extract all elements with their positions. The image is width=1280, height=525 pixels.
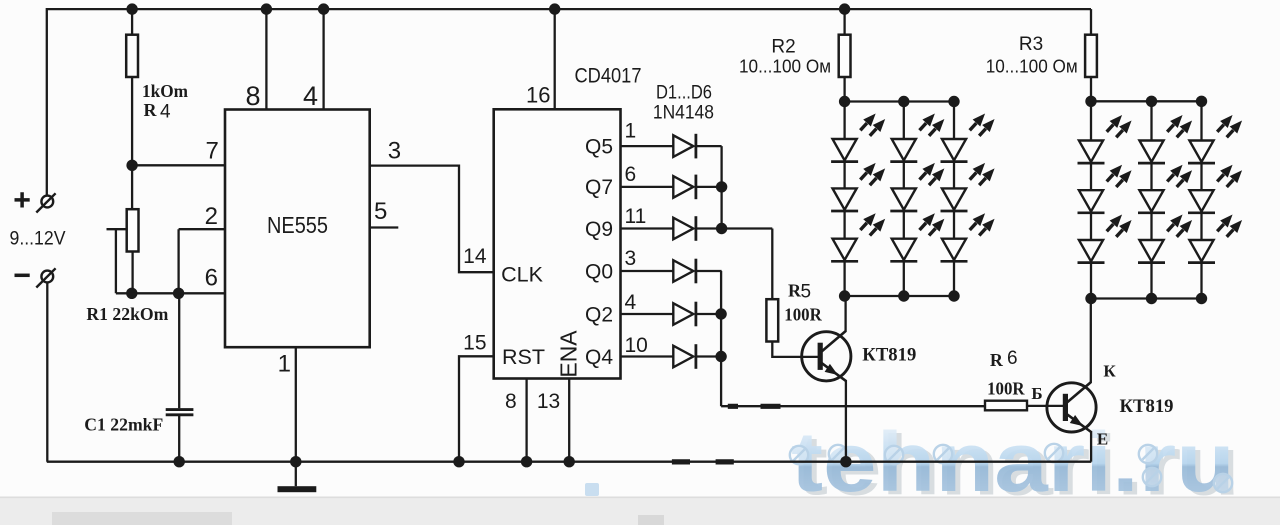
wire D2 to bus [696,186,722,188]
wire D4 to bus [696,270,722,272]
wire VT2 emitter to ground rail [1090,431,1092,462]
svg-text:10...100 Ом: 10...100 Ом [986,57,1078,77]
junction bus1 / D3 [716,223,727,234]
bottom page strip [0,497,1280,525]
svg-text:100R: 100R [987,379,1025,399]
junction LED col1 bottom (group1) [839,290,850,301]
junction bus2 / D6 [715,351,726,362]
LED HL15 (group2) [1138,216,1191,263]
wire LED col2 to bottom rail (group2) [1150,263,1152,299]
transistor VT1 KT819 [802,331,851,381]
wire down to R5 [771,229,773,300]
wire LED col2 seg3 (group1) [903,211,905,239]
diode D3 1N4148 [673,216,696,241]
svg-text:13: 13 [537,390,560,413]
wire LED group1 top rail [845,100,954,102]
wire top supply rail [47,8,1091,10]
wire LED col1 seg1 (group2) [1090,101,1092,140]
wire left drop to + terminal [46,8,48,196]
op-amp U1 NE555 box [225,110,370,348]
wire pin 1 to ground rail [295,347,297,462]
svg-text:Б: Б [1031,384,1042,403]
wire rail corner down to R3 [1090,9,1092,35]
wire bottom ground rail [47,461,1092,463]
svg-text:1kOm: 1kOm [142,81,188,101]
svg-text:10: 10 [625,334,648,357]
LED HL13 (group2) [1138,116,1191,163]
wire C1 bottom plate to ground rail [178,416,180,462]
wire LED col3 to bottom rail (group1) [953,261,955,296]
svg-text:ENA: ENA [556,330,582,378]
LED HL8 (group1) [941,164,994,211]
junction bus1 / D2 [716,181,727,192]
wire LED col3 seg3 (group1) [953,211,955,239]
junction pin8 on ground rail [521,456,532,467]
wire Q2 to D5 [621,313,674,315]
svg-text:Q7: Q7 [585,176,613,199]
wire D6 to bus [696,355,722,357]
wire R5 to VT1 base [772,342,818,357]
LED HL11 (group2) [1078,166,1131,213]
junction top rail / R4 [126,3,137,14]
svg-text:3: 3 [388,138,401,165]
svg-text:9...12V: 9...12V [10,228,66,249]
diode D1 1N4148 [673,134,696,159]
junction pin1 on ground rail [290,456,301,467]
wire node to C1 top plate [178,293,180,408]
wire LED col2 seg2 (group1) [903,162,905,189]
wire LED col1 seg1 (group1) [843,102,845,140]
diode D2 1N4148 [673,175,696,200]
svg-text:8: 8 [505,390,517,413]
wire LED col3 seg2 (group1) [953,162,955,189]
counter U2 CD4017 box [494,109,621,378]
junction LED col2 top (group2) [1146,96,1157,107]
diode D4 1N4148 [673,259,696,284]
wire LED col1 seg3 (group2) [1090,213,1092,240]
wire pin 6 of NE555 [116,292,225,294]
wire VT1 emitter to ground rail [845,380,847,462]
wire LED col1 seg2 (group1) [843,162,845,189]
svg-text:4: 4 [303,81,318,111]
junction C1 on ground rail [174,456,185,467]
wire diode bus 2 (Q0,Q2,Q4) [720,271,722,406]
svg-text:Q9: Q9 [585,218,613,241]
svg-text:Q4: Q4 [585,346,613,369]
label R 5 [788,281,811,303]
wire from - terminal down to bottom rail [46,282,48,461]
junction top rail / pin 4 [318,3,329,14]
resistor R5 100R [766,299,778,341]
svg-text:4: 4 [625,291,637,314]
svg-text:КТ819: КТ819 [862,345,916,366]
wire diode bus 1 (Q5,Q7,Q9) [720,146,722,228]
junction pin2-6 tie / C1 [173,288,184,299]
svg-text:КТ819: КТ819 [1120,396,1174,417]
wire pin 8 of CD4017 to ground [525,379,527,462]
wire bus1 to R5 [722,227,773,229]
svg-text:RST: RST [502,345,545,369]
svg-text:Q0: Q0 [585,260,613,283]
LED HL17 (group2) [1188,166,1241,213]
LED HL9 (group1) [941,214,994,261]
svg-text:10...100 Ом: 10...100 Ом [739,57,831,77]
resistor R1 (trimmer 22kOm) [127,209,139,251]
wire R1 wiper down-leg [115,229,117,293]
wire LED col3 seg3 (group2) [1200,213,1202,240]
wire pin 8 of NE555 to rail [265,9,267,109]
junction VT1 emitter on ground rail [840,456,851,467]
LED HL7 (group1) [941,115,994,162]
junction LED col2 bottom (group1) [898,290,909,301]
resistor R4 [126,35,138,77]
wire LED col1 to bottom rail (group1) [843,261,845,296]
svg-text:15: 15 [463,331,486,354]
junction R1 bottom on pin6 line [126,288,137,299]
resistor R2 [839,35,851,77]
wire pin 7 of NE555 [131,164,225,166]
capacitor C1 22mkF [166,410,194,415]
svg-text:1: 1 [278,350,291,377]
wire Q0 to D4 [621,270,674,272]
svg-text:1: 1 [625,120,637,143]
svg-text:6: 6 [625,163,637,186]
svg-text:D1...D6: D1...D6 [656,83,712,104]
LED HL16 (group2) [1188,116,1241,163]
LED HL2 (group1) [831,164,884,211]
wire pin 4 of NE555 to rail [322,9,324,109]
svg-text:2: 2 [205,203,218,230]
junction LED col1 bottom (group2) [1085,293,1096,304]
label R 6 [990,348,1018,370]
svg-text:CD4017: CD4017 [575,63,642,87]
wire VT2 collector to LED group 2 [1090,299,1092,384]
svg-text:CLK: CLK [501,263,543,287]
LED HL12 (group2) [1078,216,1131,263]
LED HL3 (group1) [831,214,884,261]
junction LED col3 top (group1) [948,96,959,107]
wire R4 to pin7 node [131,77,133,165]
wire dashes on ground rail [672,459,734,464]
wire node to R1 [131,165,133,209]
svg-text:C1 22mkF: C1 22mkF [84,414,163,434]
svg-text:3: 3 [625,247,637,270]
LED HL10 (group2) [1078,116,1131,163]
svg-text:1N4148: 1N4148 [653,103,714,124]
wire pin 2 of NE555 [179,228,225,230]
svg-text:7: 7 [205,138,218,165]
wire D5 to bus [696,313,722,315]
junction LED col1 top (group1) [839,96,850,107]
wire LED col1 to bottom rail (group2) [1090,263,1092,299]
junction LED col3 bottom (group1) [948,290,959,301]
svg-text:6: 6 [1007,348,1018,369]
wire Q4 to D6 [621,355,674,357]
svg-text:R: R [990,350,1004,370]
LED HL4 (group1) [890,115,943,162]
svg-text:16: 16 [526,83,550,108]
LED HL1 (group1) [831,115,884,162]
wire pin 3 to CLK pin 14 [370,166,494,273]
wire Q9 to D3 [621,227,674,229]
junction node pin7/R4/R1 [126,160,137,171]
svg-text:R2: R2 [771,36,795,57]
wire LED group2 top rail [1091,100,1202,102]
ground [278,462,317,493]
wire bus2 to R6 [721,405,985,407]
svg-text:6: 6 [205,264,218,291]
svg-text:5: 5 [374,198,387,225]
wire LED col3 seg1 (group1) [953,102,955,140]
LED HL6 (group1) [890,214,943,261]
LED HL18 (group2) [1188,216,1241,263]
wire LED col2 seg2 (group2) [1150,163,1152,190]
label R 4 [144,100,172,123]
junction pin13 on ground rail [564,456,575,467]
wire VT1 collector to LED group 1 [844,296,846,332]
svg-text:R1 22kOm: R1 22kOm [86,304,168,324]
resistor R3 [1085,35,1097,77]
wire tying pins 2 and 6 [177,229,179,293]
wire Q5 to D1 [621,145,674,147]
svg-text:R: R [144,100,158,120]
junction LED col2 top (group1) [898,96,909,107]
wire LED col3 seg2 (group2) [1200,163,1202,190]
terminal - [15,268,56,287]
wire LED group2 bottom rail [1091,297,1202,299]
junction top rail / R2 [839,3,850,14]
wire LED group1 bottom rail [845,295,954,297]
wire LED col1 seg3 (group1) [843,211,845,239]
wire pin 13 of CD4017 to ground [568,379,570,462]
svg-text:К: К [1103,362,1116,381]
junction LED col1 top (group2) [1085,96,1096,107]
junction LED col2 bottom (group2) [1146,293,1157,304]
junction RST on ground rail [453,456,464,467]
wire R6 to VT2 base [1027,405,1063,407]
wire LED col2 seg3 (group2) [1150,213,1152,240]
wire LED col2 seg1 (group2) [1150,101,1152,140]
wire pin 16 to top rail [554,9,556,109]
LED HL14 (group2) [1138,166,1191,213]
wire Q7 to D2 [621,186,674,188]
LED HL5 (group1) [890,164,943,211]
wire LED col2 seg1 (group1) [903,102,905,140]
wire R1 wiper arm [107,228,127,230]
wire LED col3 to bottom rail (group2) [1200,263,1202,299]
svg-text:5: 5 [801,282,812,303]
wire D1 to bus [696,145,722,147]
wire rail to R4 [131,9,133,35]
svg-text:R3: R3 [1019,34,1043,55]
junction bus2 / D5 [715,308,726,319]
svg-text:Е: Е [1097,430,1108,449]
svg-text:Q5: Q5 [585,135,613,158]
wire dashes on base wire [728,404,781,409]
wire R3 to LED group 2 top rail [1090,77,1092,101]
terminal + [15,192,56,212]
wire RST pin 15 to ground rail [459,356,494,461]
junction LED col3 top (group2) [1196,96,1207,107]
transistor VT2 KT819 [1047,382,1096,432]
svg-text:14: 14 [463,245,487,268]
svg-text:100R: 100R [784,305,822,325]
svg-text:11: 11 [625,205,647,228]
svg-text:Q2: Q2 [585,303,613,326]
wire LED col2 to bottom rail (group1) [903,261,905,296]
svg-text:NE555: NE555 [267,212,328,238]
diode D5 1N4148 [673,302,696,327]
junction top rail / pin 16 [549,3,560,14]
wire D3 to bus [696,227,722,229]
wire LED col3 seg1 (group2) [1200,101,1202,140]
resistor R6 100R (horizontal) [985,401,1027,411]
wire rail to R2 [843,9,845,35]
junction LED col3 bottom (group2) [1196,293,1207,304]
svg-text:8: 8 [245,81,260,111]
wire R2 to LED group 1 top rail [843,77,845,102]
junction top rail / pin 8 [261,3,272,14]
watermark tehnari.ru [585,415,1240,513]
wire R1 bottom [131,252,133,294]
wire LED col1 seg2 (group2) [1090,163,1092,190]
svg-text:4: 4 [160,102,171,123]
wire pin 5 stub [370,226,399,228]
diode D6 1N4148 [673,344,696,369]
